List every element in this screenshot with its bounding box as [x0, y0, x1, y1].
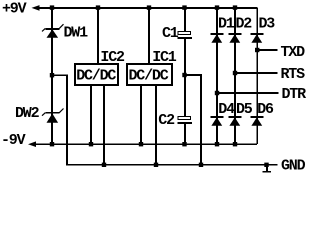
svg-text:DC/DC: DC/DC: [76, 68, 116, 85]
node dot -9V IC1: [139, 142, 143, 146]
wire GND rail: [66, 164, 278, 166]
wire -9V rail: [35, 143, 257, 145]
node dot -9V IC2: [89, 142, 93, 146]
wire D2 D5 column: [234, 8, 236, 145]
node dot DW junction: [50, 73, 54, 77]
svg-text:DTR: DTR: [282, 86, 307, 103]
wire C-midnode to GND rail: [185, 75, 201, 165]
node dot -9V D4: [215, 142, 219, 146]
capacitor C2: [178, 117, 193, 123]
wire IC2 pin to -9V: [90, 85, 92, 145]
node dot -9V C2: [182, 142, 186, 146]
op box IC2 DC/DC: [75, 64, 118, 85]
svg-text:C2: C2: [158, 112, 175, 129]
ground: [263, 165, 271, 172]
diode D1: [211, 34, 224, 43]
node dot GND rail Cmid: [199, 163, 203, 167]
svg-text:C1: C1: [162, 25, 179, 42]
op box IC1 DC/DC: [127, 64, 172, 85]
svg-text:D4: D4: [218, 101, 235, 118]
node dot top rail IC1: [147, 5, 151, 9]
node dot GND symbol: [264, 163, 268, 167]
arrow -9V: [28, 141, 36, 147]
svg-text:D2: D2: [236, 16, 253, 33]
svg-text:IC1: IC1: [152, 49, 177, 66]
svg-text:DW1: DW1: [64, 25, 89, 42]
wire IC1 pin to GND: [155, 85, 157, 165]
svg-text:RTS: RTS: [281, 66, 306, 83]
svg-text:DC/DC: DC/DC: [129, 68, 169, 85]
diode D6: [251, 117, 264, 126]
svg-text:DW2: DW2: [15, 105, 40, 122]
wire RTS stub: [235, 72, 278, 74]
node dot C mid junction: [182, 73, 186, 77]
zener diode DW2: [42, 109, 64, 123]
wire C1 C2 column: [184, 8, 186, 32]
wire TXD stub: [257, 49, 278, 51]
diode D4: [211, 117, 224, 126]
node dot -9V DW2: [50, 142, 54, 146]
wire D1 D4 column: [216, 8, 218, 145]
zener diode DW1: [42, 24, 64, 38]
diode D5: [229, 117, 242, 126]
node dot top rail C1: [182, 5, 186, 9]
diode D2: [229, 34, 242, 43]
capacitor C1: [178, 32, 193, 39]
node dot GND rail IC2: [102, 163, 106, 167]
wire IC2 top pin: [97, 8, 99, 64]
svg-text:D5: D5: [236, 101, 253, 118]
node dot top rail D2: [233, 5, 237, 9]
wire IC1 top pin: [148, 8, 150, 65]
node dot top rail D1: [215, 5, 219, 9]
wire junction-to-GND L wire: [52, 75, 67, 165]
wire IC2 pin to GND: [103, 85, 105, 165]
svg-text:TXD: TXD: [281, 44, 306, 61]
wire +9V top rail: [38, 7, 257, 9]
node dot RTS: [233, 71, 237, 75]
wire IC1 pin to -9V: [140, 85, 142, 145]
svg-text:D1: D1: [218, 16, 235, 33]
svg-text:D6: D6: [257, 101, 274, 118]
node dot DTR: [215, 91, 219, 95]
wire D3 column drop from top rail corner: [256, 8, 258, 145]
arrow +9V: [32, 5, 40, 11]
wire DTR stub: [217, 92, 279, 94]
node dot TXD: [255, 48, 259, 52]
svg-text:D3: D3: [259, 16, 276, 33]
diode D3: [251, 34, 264, 43]
svg-text:GND: GND: [281, 158, 306, 175]
node dot -9V D5: [233, 142, 237, 146]
svg-text:+9V: +9V: [2, 1, 27, 18]
node dot top rail DW: [50, 5, 54, 9]
svg-text:IC2: IC2: [100, 49, 125, 66]
wire DW column: [51, 8, 53, 145]
node dot top rail IC2: [96, 5, 100, 9]
svg-text:-9V: -9V: [1, 132, 26, 149]
node dot GND rail IC1: [154, 163, 158, 167]
